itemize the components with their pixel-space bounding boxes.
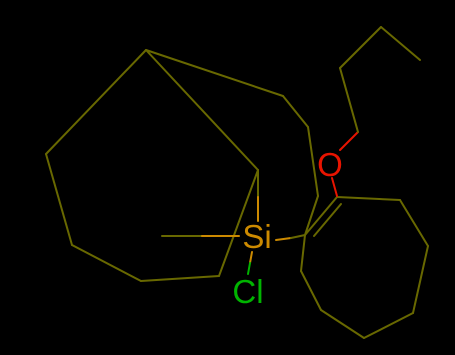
wire T-L1 bbox=[46, 50, 146, 154]
wire B2-R bbox=[219, 170, 258, 276]
wire C1-C2 bbox=[340, 68, 358, 132]
methoxy chain bbox=[340, 27, 420, 132]
wire B1-B2 bbox=[141, 276, 219, 281]
left hexagon ring bbox=[46, 50, 258, 281]
wire T-M1 bbox=[146, 50, 283, 96]
wire R-T bbox=[146, 50, 258, 170]
right octagon ring bbox=[301, 197, 428, 338]
wire L1-L2 bbox=[46, 154, 72, 245]
bond R-Si upper half bbox=[257, 170, 259, 197]
middle ring chain bbox=[146, 50, 318, 235]
wire Va-Vb bbox=[301, 271, 321, 310]
wire Vd-Ve bbox=[413, 246, 428, 313]
bond Si-Cl orange half bbox=[250, 252, 252, 263]
wire M2-VC bbox=[308, 127, 318, 196]
double bond VO-VSi inner bbox=[314, 204, 341, 236]
bond Si-Cl green half bbox=[248, 263, 250, 274]
wire M1-M2 bbox=[283, 96, 308, 127]
bond R-Si lower half bbox=[257, 197, 259, 221]
svg-text:Cl: Cl bbox=[232, 273, 263, 310]
bond O-ring red bbox=[332, 178, 337, 196]
wire C2-C3 bbox=[340, 27, 381, 68]
wire L2-B1 bbox=[72, 245, 141, 281]
bond Si-ring right dark half bbox=[291, 235, 305, 238]
wire Vc-Vd bbox=[364, 313, 413, 338]
wire Vf-VO bbox=[337, 197, 400, 200]
wire VO-VSi bbox=[305, 197, 337, 235]
svg-text:Si: Si bbox=[242, 218, 271, 255]
wire C3-C4 bbox=[381, 27, 420, 60]
wire Ve-Vf bbox=[400, 200, 428, 246]
bond Si-methyl left dark half bbox=[162, 235, 202, 237]
bond Si-methyl left orange half bbox=[202, 235, 239, 237]
bond Si-ring right orange half bbox=[276, 238, 291, 240]
wire VSi-Va bbox=[301, 235, 305, 271]
wire VC-VSi bbox=[305, 196, 318, 235]
wire Vb-Vc bbox=[321, 310, 364, 338]
svg-text:O: O bbox=[317, 146, 343, 183]
bond O-CH2 red bbox=[340, 132, 358, 150]
